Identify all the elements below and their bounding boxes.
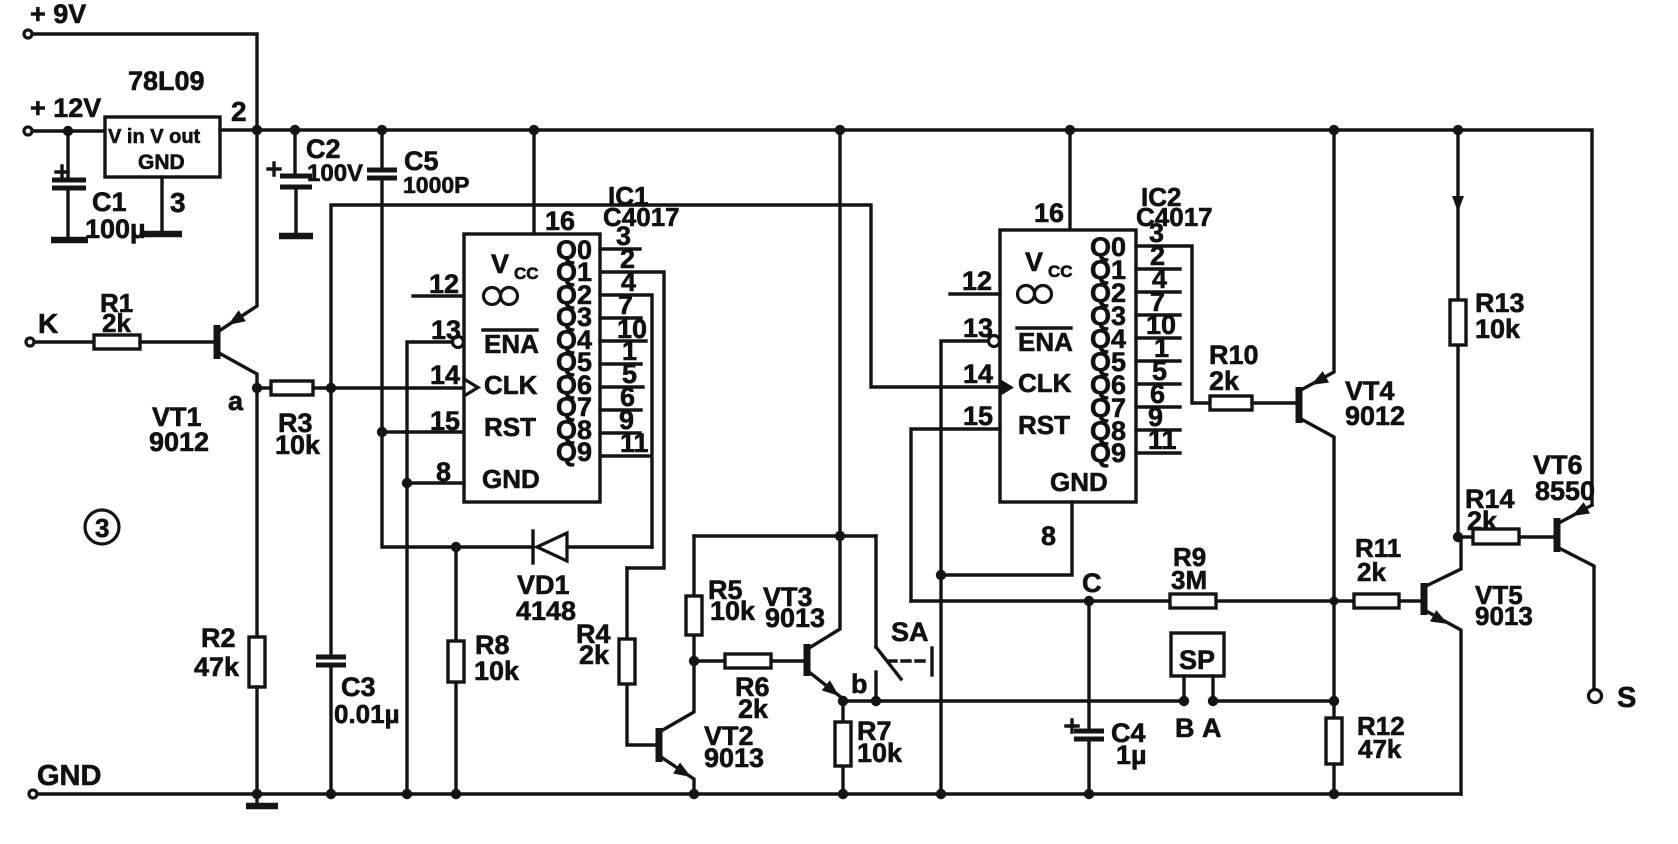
wire V+ rail (220, 130, 1592, 505)
pin 3 stub Q0 (600, 221, 640, 251)
svg-text:100µ: 100µ (85, 214, 146, 244)
svg-text:0.01µ: 0.01µ (334, 699, 400, 729)
svg-text:4148: 4148 (516, 596, 576, 626)
pin 14 CLK marker IC1 (430, 360, 478, 396)
svg-text:CLK: CLK (1018, 368, 1072, 398)
svg-text:GND: GND (1050, 467, 1108, 497)
wire IC1 Vcc pin16 (532, 130, 535, 234)
speaker SP (1171, 633, 1224, 743)
pin 4 stub IC2 (1136, 264, 1180, 294)
node C wire (911, 568, 1422, 601)
resistor R9 3M (1170, 542, 1216, 608)
resistor R7 10k (835, 701, 903, 794)
resistor R12 47k (1326, 711, 1405, 794)
svg-text:1µ: 1µ (1116, 740, 1147, 770)
transistor VT4 9012 (1299, 130, 1405, 718)
wire node b to speaker B (843, 699, 1184, 702)
svg-text:Q9: Q9 (1090, 438, 1126, 468)
pin 1 stub (600, 336, 641, 366)
capacitor C5 1000P (367, 130, 470, 432)
svg-text:b: b (851, 669, 868, 699)
figure number circle 3 (85, 510, 119, 544)
pin 13 ENA bubble IC2 (963, 313, 1000, 347)
svg-text:CLK: CLK (484, 370, 538, 400)
svg-text:2k: 2k (1209, 366, 1240, 396)
svg-text:10k: 10k (275, 430, 321, 460)
pin 5 stub (600, 359, 643, 389)
resistor R8 10k (448, 547, 520, 794)
wire node a through R3 to IC1 CLK (257, 386, 464, 389)
svg-text:SP: SP (1179, 645, 1215, 675)
svg-text:3: 3 (170, 187, 186, 218)
resistor R3 10k (271, 381, 321, 460)
pin 15 RST wire IC1 (382, 406, 464, 436)
svg-text:11: 11 (1148, 425, 1177, 455)
pin 12 stub IC2 (950, 266, 1000, 296)
wire +9V to rail (33, 34, 257, 130)
svg-text:2k: 2k (102, 308, 131, 338)
svg-text:2k: 2k (738, 694, 769, 724)
svg-text:V in V out: V in V out (108, 126, 201, 148)
svg-text:ENA: ENA (1018, 327, 1073, 357)
svg-text:ENA: ENA (484, 329, 539, 359)
svg-text:SA: SA (891, 617, 929, 647)
transistor VT6 8550 (1533, 450, 1595, 690)
ground 78L09 pin3 (143, 187, 186, 234)
capacitor C3 0.01u (316, 657, 400, 794)
svg-text:12: 12 (962, 266, 992, 296)
diode VD1 4148 (516, 531, 652, 626)
pin 10 stub IC2 (1136, 310, 1180, 340)
svg-text:+ 9V: + 9V (30, 0, 86, 29)
svg-text:C3: C3 (341, 672, 376, 702)
resistor R5 10k (686, 536, 756, 661)
pin 5 stub IC2 (1136, 356, 1180, 386)
svg-text:RST: RST (484, 412, 536, 442)
svg-text:CC: CC (1048, 262, 1073, 281)
svg-text:16: 16 (1034, 198, 1064, 228)
pin 9 stub IC2 (1136, 402, 1180, 432)
wire R5 top to VT3 collector and switch (694, 534, 876, 537)
ground C1 (51, 237, 88, 244)
resistor R14 2k (1458, 484, 1556, 544)
node +12V terminal (24, 93, 101, 135)
svg-text:V: V (1025, 247, 1043, 277)
resistor R6 2k (694, 654, 806, 724)
resistor R10 2k (1209, 340, 1297, 410)
svg-text:15: 15 (963, 401, 993, 431)
transistor VT1 9012 (149, 130, 257, 457)
pin 7 stub (600, 290, 641, 320)
svg-text:16: 16 (545, 206, 575, 236)
pin 2 stub IC2 (1136, 241, 1180, 271)
svg-text:a: a (228, 386, 244, 416)
svg-text:RST: RST (1018, 410, 1070, 440)
pin 8 wire IC1 (407, 457, 464, 487)
svg-text:GND: GND (482, 464, 540, 494)
svg-text:100V: 100V (307, 160, 363, 187)
pin 9 stub (600, 405, 640, 435)
wire +12V to regulator input (33, 129, 105, 132)
pin 15 RST wire IC2 (911, 401, 1000, 601)
capacitor C4 1u (1066, 601, 1147, 794)
svg-text:C: C (1082, 568, 1102, 598)
svg-text:+ 12V: + 12V (30, 93, 101, 123)
svg-text:14: 14 (430, 360, 460, 390)
svg-text:2: 2 (231, 96, 247, 127)
pin 11 stub (600, 428, 651, 458)
pin 10 stub (600, 314, 647, 344)
pin 6 stub (600, 382, 641, 412)
wire ENA of IC2 to ground (941, 341, 988, 794)
svg-text:B: B (1175, 713, 1195, 743)
svg-text:13: 13 (963, 313, 993, 343)
svg-text:15: 15 (430, 406, 460, 436)
svg-text:9012: 9012 (1345, 401, 1405, 431)
transistor VT5 9013 (1424, 537, 1533, 794)
svg-text:10k: 10k (1475, 314, 1521, 344)
resistor R4 2k (576, 568, 657, 745)
ground C2 (279, 233, 313, 240)
svg-text:10k: 10k (857, 738, 903, 768)
svg-text:3: 3 (95, 513, 109, 543)
svg-text:1000P: 1000P (403, 172, 470, 198)
svg-text:8: 8 (436, 457, 451, 487)
svg-text:9012: 9012 (149, 427, 209, 457)
resistor R1 2k (94, 288, 140, 349)
svg-text:3M: 3M (1171, 565, 1207, 595)
svg-text:10k: 10k (710, 596, 756, 626)
resistor R11 2k (1354, 533, 1401, 608)
svg-text:CC: CC (514, 264, 539, 283)
wire ground rail (38, 792, 1461, 795)
svg-text:78L09: 78L09 (128, 66, 205, 96)
svg-text:10k: 10k (474, 656, 520, 686)
wire C3 branch from IC2 clock line (331, 205, 1000, 657)
IC U2 C4017 box (1000, 182, 1213, 502)
switch SA (851, 536, 932, 701)
wire R2 to ground rail (255, 687, 258, 794)
pin 12 stub IC1 (413, 269, 464, 299)
svg-text:2k: 2k (579, 640, 610, 670)
svg-text:GND: GND (37, 760, 101, 792)
IC U1 C4017 box (464, 181, 680, 502)
node +9V terminal (24, 0, 86, 38)
svg-text:8: 8 (1041, 521, 1056, 551)
pin 1 stub IC2 (1136, 333, 1180, 363)
svg-text:C4017: C4017 (603, 202, 680, 232)
svg-text:2k: 2k (1467, 506, 1498, 536)
pin 4 wire Q2 to diode (600, 267, 652, 547)
svg-text:GND: GND (138, 151, 185, 174)
wire ENA and GND of IC1 to ground (407, 342, 452, 794)
svg-text:C1: C1 (92, 187, 127, 217)
wire R1 to VT1 base (140, 340, 216, 343)
svg-text:8550: 8550 (1535, 476, 1595, 506)
capacitor C1 100u (52, 131, 146, 244)
transistor VT2 9013 (659, 661, 764, 794)
resistor R2 47k (194, 623, 265, 687)
pin 7 stub IC2 (1136, 287, 1180, 317)
svg-text:11: 11 (620, 428, 649, 458)
regulator 78L09 (105, 66, 247, 177)
svg-text:Q9: Q9 (556, 437, 592, 467)
pin 3 wire Q0 to R10 (1136, 218, 1210, 403)
svg-text:2k: 2k (1357, 557, 1386, 587)
svg-text:K: K (38, 308, 58, 339)
svg-text:47k: 47k (194, 652, 240, 682)
svg-text:9013: 9013 (704, 743, 764, 773)
pin 8 wire IC2 (941, 502, 1072, 575)
svg-text:V: V (491, 249, 509, 279)
wire regulator pin3 to ground (160, 177, 163, 232)
svg-text:S: S (1617, 682, 1636, 714)
resistor R13 10k with arrow (1450, 130, 1525, 537)
svg-text:12: 12 (429, 269, 459, 299)
svg-text:A: A (1202, 713, 1222, 743)
wire IC2 Vcc pin16 (1068, 130, 1071, 230)
pin 13 ENA bubble IC1 (431, 315, 464, 348)
transistor VT3 9013 (763, 130, 843, 701)
capacitor C2 100V (268, 130, 363, 234)
pin 14 CLK marker IC2 (963, 359, 1014, 396)
wire speaker A to R12 top (1213, 699, 1334, 702)
pin 6 stub IC2 (1136, 379, 1180, 409)
ground symbol at rail (255, 794, 258, 804)
svg-text:14: 14 (963, 359, 993, 389)
pin 2 wire Q1 (600, 244, 664, 568)
node GND terminal (29, 760, 101, 798)
wire K to R1 (35, 340, 94, 343)
svg-text:9013: 9013 (765, 603, 825, 633)
svg-text:R2: R2 (201, 623, 236, 653)
svg-text:9013: 9013 (1475, 601, 1533, 631)
svg-text:47k: 47k (1358, 734, 1402, 764)
node S terminal (1589, 682, 1637, 714)
wire RST net down to reset line (382, 432, 533, 547)
node K terminal (26, 308, 58, 346)
pin 11 stub IC2 (1136, 425, 1180, 455)
svg-text:C4017: C4017 (1136, 202, 1213, 232)
wire node a to R2 (255, 388, 258, 637)
